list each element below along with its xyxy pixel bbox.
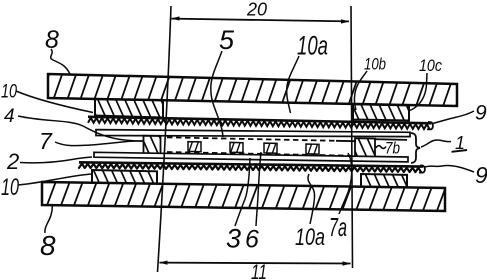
leader 8 top-left [51,49,70,74]
leader 10b [354,71,367,110]
svg-text:5: 5 [219,25,235,55]
svg-text:6: 6 [245,226,259,254]
svg-text:7: 7 [39,128,53,154]
underline 1 [452,150,468,152]
upper adhesive zigzag layer 4/9 [88,117,433,130]
tilde 7b [376,146,386,149]
leader 4 [18,116,144,141]
leader 8 bottom-left [45,204,52,233]
arrow top-right [341,19,350,23]
leader 5 [211,51,223,137]
leader 10a bottom [308,174,315,224]
dimension line 20 [172,19,350,22]
svg-text:7b: 7b [385,139,400,158]
svg-text:10a: 10a [295,224,325,251]
svg-text:10a: 10a [297,31,328,61]
lower adhesive zigzag layer 2/9 [79,162,425,172]
spacer block a [188,142,201,152]
brace for 1 [411,133,420,163]
arrow top-left [171,16,180,20]
spacer block c [264,143,277,153]
svg-text:4: 4 [4,106,15,127]
leader 3 [235,158,250,226]
upper cell plate 7 [96,130,410,137]
bottom plate 8 [30,178,462,216]
svg-text:11: 11 [251,261,267,280]
spacer block b [230,142,243,152]
bottom-right block [361,174,407,187]
right seal block 7b [355,138,375,158]
lower cell plate 7a [94,152,408,162]
svg-text:10c: 10c [419,56,442,75]
svg-text:3: 3 [226,224,241,254]
svg-text:20: 20 [246,0,267,20]
svg-text:7a: 7a [329,212,347,242]
leader 2 [20,157,92,163]
top-left block 10 [95,99,163,118]
leader 7 [55,141,144,146]
leader 9 top-right [432,111,475,124]
top plate 8 [36,70,469,112]
svg-text:10: 10 [1,174,19,201]
leader 6 [256,152,261,226]
top-right block 10b/10c [353,104,409,120]
arrow bottom-right [343,261,352,265]
leader 10c [410,73,428,111]
leader 10 top-left [16,91,93,113]
arrow bottom-left [159,261,168,265]
svg-text:9: 9 [475,162,487,188]
electrode lead-out right of seal [375,138,407,141]
bottom electrode dashed line [167,152,356,156]
leader 7a [339,153,352,214]
svg-text:9: 9 [475,102,487,125]
dimension line 11 [160,262,351,265]
left seal block [144,136,161,154]
spacer block d [306,144,319,154]
right extension line [351,6,353,268]
svg-text:2: 2 [6,149,19,174]
left extension line [158,6,172,272]
electrode lead-out solid segment left of seal [336,140,356,142]
svg-text:10: 10 [1,82,17,103]
svg-text:8: 8 [40,230,56,261]
leader 10a top [287,56,299,113]
svg-text:10b: 10b [364,55,386,74]
leader 9 bottom-right [424,165,474,172]
leader 10 bottom-left [18,174,91,185]
top electrode dashed line [167,137,336,141]
bottom-left block 10 [92,170,157,184]
leader 1 [421,140,451,147]
